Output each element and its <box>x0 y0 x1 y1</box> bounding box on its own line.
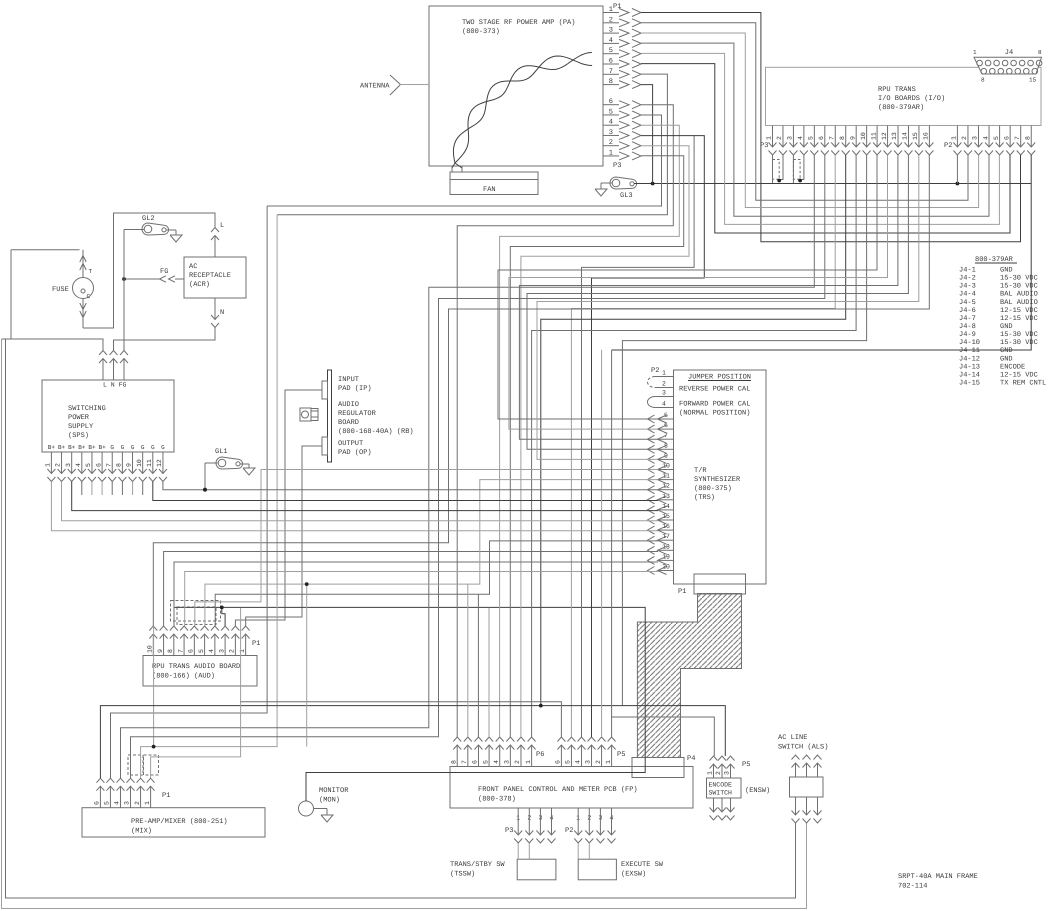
svg-text:P5: P5 <box>617 751 625 759</box>
svg-text:10: 10 <box>136 459 143 467</box>
wire AUD-P1-8 to TRS-19 <box>174 562 658 626</box>
svg-text:6: 6 <box>555 760 562 764</box>
svg-text:8: 8 <box>1024 136 1031 140</box>
svg-text:5: 5 <box>85 463 92 467</box>
svg-text:J4-2: J4-2 <box>959 275 976 283</box>
wire SPS-9 stub <box>132 482 134 496</box>
svg-text:RECEPTACLE: RECEPTACLE <box>189 272 231 280</box>
TRS connector P2 pins 1-4 with jumpers <box>648 367 674 408</box>
GL3 ground bus wire <box>634 182 1031 186</box>
wire SPS-7 stub <box>111 482 113 496</box>
svg-text:1: 1 <box>766 136 773 140</box>
wire PA-P3-5 to MIX bus x267 <box>267 115 661 206</box>
svg-text:SWITCH (ALS): SWITCH (ALS) <box>778 743 828 752</box>
svg-text:(800-375): (800-375) <box>694 484 732 493</box>
svg-text:J4-14: J4-14 <box>959 371 980 379</box>
connector P3 of PA, pins 6-1 <box>603 98 641 170</box>
svg-text:7: 7 <box>105 463 112 467</box>
svg-text:6: 6 <box>1003 136 1010 140</box>
wire PA-P1-2 to I/O-P2-2 <box>641 23 968 201</box>
svg-text:J4-1: J4-1 <box>959 267 976 275</box>
svg-text:3: 3 <box>662 390 666 397</box>
svg-text:FAN: FAN <box>483 186 496 194</box>
wire FP-P5-6 to ENSW-1 <box>611 350 613 737</box>
wire SPS-1 to TRS-16 <box>51 482 658 531</box>
wire I/O-P3-10 <box>622 155 866 706</box>
wire MIX-P1-1 feed <box>151 608 241 778</box>
svg-text:REVERSE POWER CAL: REVERSE POWER CAL <box>679 386 750 394</box>
svg-text:11: 11 <box>870 132 877 140</box>
TRS connector P2 pins 5-20 <box>648 412 674 575</box>
wire bus x277 to MIX-P1-2 <box>141 215 278 778</box>
svg-text:REGULATOR: REGULATOR <box>338 410 377 418</box>
wire fuse top to node <box>11 249 80 251</box>
SPS output pins 1-12 <box>45 444 167 482</box>
T/R synthesizer TRS box (800-375) <box>674 370 767 584</box>
wire AUD-P1-4 to TRS-17 <box>215 541 658 626</box>
RPU trans I/O boards box (800-379AR) <box>766 67 1042 125</box>
wire bus x267 to MIX-P1-5 <box>111 206 268 778</box>
trans/stby switch TSSW <box>450 844 556 880</box>
svg-text:5: 5 <box>198 649 205 653</box>
svg-text:J4-6: J4-6 <box>959 307 976 315</box>
svg-text:15-30 VDC: 15-30 VDC <box>1000 331 1038 339</box>
svg-text:2: 2 <box>134 801 141 805</box>
svg-text:4: 4 <box>662 401 666 408</box>
svg-text:(800-166) (AUD): (800-166) (AUD) <box>152 672 215 681</box>
svg-text:3: 3 <box>65 463 72 467</box>
wire ENSW-1 branch <box>612 717 715 756</box>
front panel control and meter PCB box (800-378) <box>450 767 693 809</box>
svg-text:5: 5 <box>565 760 572 764</box>
wire PA-P3-3a to FP-P5-3 <box>582 136 695 737</box>
ACR pin L <box>211 222 224 257</box>
svg-text:B+: B+ <box>68 444 76 451</box>
svg-text:4: 4 <box>208 649 215 653</box>
svg-text:J4-7: J4-7 <box>959 315 976 323</box>
svg-text:P1: P1 <box>252 640 260 648</box>
wire AC L loop via GL2 box <box>83 213 215 328</box>
wire SPS-6 stub <box>101 482 103 496</box>
wire FP-P6-6 drop <box>477 594 479 737</box>
MIX connector P1 pins 6-1 <box>94 778 171 808</box>
wire PA-P1-8 to GL3 <box>641 85 653 184</box>
wire I/O-P3-5 to MIX-P1-4 <box>121 155 815 778</box>
wire y701.8 run <box>241 702 562 737</box>
wire FP-P6-7 drop <box>467 584 469 737</box>
svg-text:GL3: GL3 <box>620 192 633 200</box>
svg-text:GL2: GL2 <box>142 215 155 223</box>
svg-text:14: 14 <box>902 132 909 140</box>
svg-text:5: 5 <box>993 136 1000 140</box>
twisted pair wire inside PA <box>452 53 592 169</box>
svg-text:B+: B+ <box>98 444 106 451</box>
svg-text:2: 2 <box>776 136 783 140</box>
svg-text:6: 6 <box>95 463 102 467</box>
svg-text:2: 2 <box>514 760 521 764</box>
wire FP-P5-5 drop <box>601 350 603 737</box>
wire GL2 to FG node <box>124 230 144 280</box>
wire PA-P3-4 to FP-P6-4 <box>500 125 680 737</box>
wire MIX-P1-2 bus drop <box>306 584 308 747</box>
svg-text:PRE-AMP/MIXER (800-251): PRE-AMP/MIXER (800-251) <box>131 817 228 826</box>
svg-text:6: 6 <box>818 136 825 140</box>
svg-text:FORWARD POWER CAL: FORWARD POWER CAL <box>679 401 750 409</box>
jumper plugs on I/O P3 pins 1-4 <box>773 155 804 184</box>
wire AUD-P1-7 to TRS-20 <box>185 572 658 627</box>
FP connector P6 pins 8-1 <box>450 737 544 767</box>
svg-text:G: G <box>161 444 165 451</box>
svg-text:PAD (IP): PAD (IP) <box>338 384 372 393</box>
junction dots <box>152 488 543 749</box>
svg-text:1: 1 <box>951 136 958 140</box>
svg-text:3: 3 <box>787 136 794 140</box>
svg-text:7: 7 <box>177 649 184 653</box>
wire PA-P1-1 to I/O-P2-7 <box>641 13 1021 242</box>
connector J4 DB-15 on I/O board <box>973 49 1042 84</box>
wire fuse branch down <box>10 250 12 339</box>
svg-text:(800-378): (800-378) <box>478 795 516 804</box>
svg-text:TWO STAGE RF POWER AMP (PA): TWO STAGE RF POWER AMP (PA) <box>462 18 575 27</box>
svg-text:AUDIO: AUDIO <box>338 401 359 409</box>
svg-text:(MON): (MON) <box>319 796 340 805</box>
svg-text:L: L <box>220 222 224 230</box>
wire FG down to SPS <box>123 279 125 351</box>
wire I/O-P3-12 to TRS-6 <box>509 155 888 429</box>
svg-text:1: 1 <box>662 370 666 377</box>
fuse F1 <box>52 250 94 328</box>
svg-text:P2: P2 <box>651 367 659 375</box>
wire I/O-P3-8 to ENSW bus <box>541 155 846 706</box>
svg-text:FUSE: FUSE <box>52 286 69 294</box>
svg-text:5: 5 <box>104 801 111 805</box>
wire SPS-2 to TRS-15 <box>62 482 659 521</box>
svg-text:J4: J4 <box>1005 49 1013 57</box>
wire PA-P1-7 to MIX bus x277 <box>277 74 667 215</box>
svg-text:SUPPLY: SUPPLY <box>68 423 94 431</box>
svg-text:OUTPUT: OUTPUT <box>338 440 363 448</box>
svg-text:BAL AUDIO: BAL AUDIO <box>1000 299 1038 307</box>
svg-text:16: 16 <box>923 132 930 140</box>
audio regulator board RB (800-168-40A) <box>300 370 414 462</box>
svg-text:ANTENNA: ANTENNA <box>360 83 390 91</box>
wire SPS-12 to TRS-12 <box>163 482 658 490</box>
svg-text:4: 4 <box>114 801 121 805</box>
svg-text:B+: B+ <box>58 444 66 451</box>
wire ALS return up left edge <box>6 339 796 898</box>
svg-text:P3: P3 <box>613 162 621 170</box>
ground lug GL3 <box>595 177 637 200</box>
svg-text:3: 3 <box>724 771 731 775</box>
svg-text:2: 2 <box>595 760 602 764</box>
svg-text:G: G <box>110 444 114 451</box>
svg-text:4: 4 <box>493 760 500 764</box>
svg-text:4: 4 <box>75 463 82 467</box>
svg-text:ENCODE: ENCODE <box>1000 363 1025 371</box>
wire PA-P1-3 to I/O-P2-3 <box>641 33 979 208</box>
svg-text:2: 2 <box>961 136 968 140</box>
svg-text:(SPS): (SPS) <box>68 431 89 440</box>
connector P3 of I/O board, pins 1-16 <box>760 126 933 156</box>
svg-text:FG: FG <box>160 268 168 276</box>
svg-text:PAD (OP): PAD (OP) <box>338 448 372 457</box>
svg-text:(EXSW): (EXSW) <box>621 870 646 879</box>
svg-text:2: 2 <box>229 649 236 653</box>
svg-text:15: 15 <box>912 132 919 140</box>
wire SPS-4 stub <box>81 482 83 496</box>
encode switch ENSW box <box>707 778 771 798</box>
wire I/O-P3-9 to FP-P6-1 <box>532 155 857 737</box>
svg-text:12: 12 <box>881 132 888 140</box>
FAN box under PA <box>450 166 538 195</box>
wire PA-P3-1 to FP-P6-3 <box>510 156 683 737</box>
svg-text:SWITCHING: SWITCHING <box>68 405 106 413</box>
wire I/O-P3-11 to TRS-5 <box>498 155 877 419</box>
wire SPS-3 to TRS-14 <box>72 482 658 511</box>
FP connector P5 pins 6-1 <box>555 737 626 767</box>
svg-text:INPUT: INPUT <box>338 376 359 384</box>
svg-text:9: 9 <box>126 463 133 467</box>
800-379AR pin function table <box>959 256 1046 387</box>
svg-text:J4-4: J4-4 <box>959 291 976 299</box>
svg-text:TX REM CNTL: TX REM CNTL <box>1000 379 1046 387</box>
svg-text:J4-9: J4-9 <box>959 331 976 339</box>
svg-text:3: 3 <box>585 760 592 764</box>
svg-text:B+: B+ <box>78 444 86 451</box>
svg-text:P6: P6 <box>536 751 544 759</box>
wire MIX-P1-6 to ENSW-2 bus <box>100 706 725 778</box>
svg-text:P5: P5 <box>742 761 750 769</box>
svg-text:G: G <box>131 444 135 451</box>
svg-text:TRANS/STBY SW: TRANS/STBY SW <box>450 860 505 869</box>
svg-text:MONITOR: MONITOR <box>319 787 349 795</box>
svg-text:J4-5: J4-5 <box>959 299 976 307</box>
AC receptacle ACR box <box>184 257 246 298</box>
drawing title <box>898 873 978 891</box>
svg-text:9: 9 <box>157 649 164 653</box>
svg-text:7: 7 <box>828 136 835 140</box>
ACR pin N <box>211 298 224 328</box>
svg-text:3: 3 <box>972 136 979 140</box>
wire PA-P1-5 to I/O-P2-5 <box>641 53 999 224</box>
svg-text:12: 12 <box>156 459 163 467</box>
svg-text:SWITCH: SWITCH <box>709 790 733 797</box>
svg-text:(TRS): (TRS) <box>694 493 715 502</box>
wire I/O-P3-13 to TRS-7 <box>519 155 898 439</box>
svg-text:(ENSW): (ENSW) <box>745 786 770 795</box>
svg-text:6: 6 <box>94 801 101 805</box>
wire SPS-11 to TRS-13 <box>153 482 658 501</box>
ground lug GL1 <box>203 448 255 492</box>
svg-text:6: 6 <box>188 649 195 653</box>
svg-text:J4-15: J4-15 <box>959 379 980 387</box>
ENSW bottom pins <box>710 798 735 820</box>
ALS top pins <box>792 755 822 777</box>
svg-text:FRONT PANEL CONTROL AND METER: FRONT PANEL CONTROL AND METER PCB (FP) <box>478 785 638 794</box>
svg-text:2: 2 <box>715 771 722 775</box>
svg-text:10: 10 <box>860 132 867 140</box>
svg-text:1: 1 <box>45 463 52 467</box>
hatched ribbon cable TRS-P1 to FP-P4 <box>637 594 741 758</box>
svg-text:13: 13 <box>891 132 898 140</box>
jumper plugs above AUD pins <box>171 601 221 625</box>
svg-text:12-15 VDC: 12-15 VDC <box>1000 307 1038 315</box>
svg-text:2: 2 <box>662 381 666 388</box>
wire RB output pad <box>246 446 322 626</box>
svg-text:P3: P3 <box>505 827 513 835</box>
antenna input <box>360 75 429 95</box>
svg-text:3: 3 <box>504 760 511 764</box>
FP connector P4 box <box>632 755 695 778</box>
svg-text:P1: P1 <box>613 3 621 11</box>
wire I/O-P3-6 to MIX-P1-3 <box>131 155 825 778</box>
SPS input pins L N FG <box>99 351 128 381</box>
svg-text:3: 3 <box>124 801 131 805</box>
svg-text:(800-379AR): (800-379AR) <box>878 103 924 112</box>
wire AUD-P1-3 jog to monitor bus <box>222 607 225 626</box>
svg-text:SRPT-40A MAIN FRAME: SRPT-40A MAIN FRAME <box>898 873 978 881</box>
wire SPS-5 stub <box>91 482 93 496</box>
svg-text:ENCODE: ENCODE <box>709 782 733 789</box>
svg-text:1: 1 <box>525 760 532 764</box>
ACR pin FG <box>122 268 184 282</box>
svg-text:8: 8 <box>167 649 174 653</box>
svg-text:4: 4 <box>575 760 582 764</box>
svg-text:C: C <box>87 293 91 300</box>
wire I/O-P2-1 to GL3 bus <box>956 155 958 184</box>
encode switch connector P5 pins <box>707 756 751 778</box>
svg-text:P1: P1 <box>678 588 686 596</box>
wire I/O-P3-14 to TRS-8 <box>527 155 908 449</box>
svg-text:8: 8 <box>116 463 123 467</box>
wire PA-P3-3 to FP-P5-4 <box>592 136 705 737</box>
svg-text:G: G <box>151 444 155 451</box>
svg-text:7: 7 <box>1014 136 1021 140</box>
svg-text:G: G <box>141 444 145 451</box>
wire AUD-P1-5 to TRS-11 <box>205 480 658 626</box>
svg-text:6: 6 <box>472 760 479 764</box>
svg-text:GL1: GL1 <box>215 448 228 456</box>
pre-amp/mixer MIX box (800-251) <box>82 808 265 837</box>
svg-text:(MIX): (MIX) <box>131 827 152 836</box>
svg-text:J4-3: J4-3 <box>959 283 976 291</box>
svg-text:1: 1 <box>239 649 246 653</box>
FP connector P2 pins 1-4 <box>565 808 616 843</box>
svg-text:4: 4 <box>982 136 989 140</box>
svg-text:(ACR): (ACR) <box>189 280 210 289</box>
svg-text:T: T <box>89 268 93 275</box>
wire FP-P6-5 drop <box>488 608 490 737</box>
wire PA-P3-2 to FP-P6-2 <box>521 146 689 737</box>
wire PA-P3-6 to FP-P6-8 <box>457 105 673 737</box>
svg-text:8: 8 <box>981 77 985 84</box>
svg-text:P2: P2 <box>565 827 573 835</box>
svg-text:15: 15 <box>1029 77 1037 84</box>
TRS bottom connector P1 <box>678 574 746 596</box>
wire SPS-10 stub <box>142 482 144 496</box>
svg-text:GND: GND <box>1000 347 1013 355</box>
svg-text:3: 3 <box>218 649 225 653</box>
svg-text:(NORMAL POSITION): (NORMAL POSITION) <box>679 409 750 418</box>
svg-text:RPU TRANS: RPU TRANS <box>878 86 916 94</box>
svg-text:1: 1 <box>973 49 977 56</box>
wire RB input pad <box>235 390 322 626</box>
svg-text:EXECUTE SW: EXECUTE SW <box>621 861 664 869</box>
svg-text:12-15 VDC: 12-15 VDC <box>1000 371 1038 379</box>
ground lug GL2 <box>142 215 182 242</box>
svg-text:J4-13: J4-13 <box>959 363 980 371</box>
ALS bottom pins <box>792 797 822 823</box>
svg-text:J4-11: J4-11 <box>959 347 980 355</box>
FP connector P3 pins 1-4 <box>505 808 556 843</box>
switching power supply SPS box <box>42 380 174 452</box>
wire PA-P1-4 to I/O-P2-4 <box>641 43 989 216</box>
svg-text:RPU TRANS AUDIO BOARD: RPU TRANS AUDIO BOARD <box>152 663 240 671</box>
svg-text:12-15 VDC: 12-15 VDC <box>1000 315 1038 323</box>
svg-text:BAL AUDIO: BAL AUDIO <box>1000 291 1038 299</box>
svg-text:T/R: T/R <box>694 466 707 475</box>
svg-text:L N FG: L N FG <box>103 382 127 389</box>
wire I/O-P2-8 <box>612 155 1032 350</box>
monitor speaker MON <box>299 787 350 822</box>
svg-text:(800-168-40A) (RB): (800-168-40A) (RB) <box>338 427 414 436</box>
svg-text:J4-12: J4-12 <box>959 355 980 363</box>
svg-text:P4: P4 <box>687 755 695 763</box>
svg-text:9: 9 <box>849 136 856 140</box>
wire AC hot bottom run <box>2 339 807 909</box>
svg-text:J4-8: J4-8 <box>959 323 976 331</box>
svg-text:7: 7 <box>461 760 468 764</box>
svg-text:I/O BOARDS (I/O): I/O BOARDS (I/O) <box>878 94 945 103</box>
svg-text:GND: GND <box>1000 323 1013 331</box>
svg-text:702-114: 702-114 <box>898 883 927 891</box>
svg-text:AC LINE: AC LINE <box>778 734 807 742</box>
connector P2 of I/O board, pins 1-8 <box>944 126 1035 156</box>
svg-text:5: 5 <box>482 760 489 764</box>
svg-text:(TSSW): (TSSW) <box>450 870 475 879</box>
AUD connector P1 pins 10-1 <box>147 626 261 656</box>
svg-text:SYNTHESIZER: SYNTHESIZER <box>694 476 741 484</box>
wire AUD-P1-6 to TRS-10 <box>195 470 658 627</box>
svg-text:8: 8 <box>1038 49 1042 56</box>
svg-text:5: 5 <box>808 136 815 140</box>
svg-text:P2: P2 <box>944 142 952 150</box>
svg-text:1: 1 <box>144 801 151 805</box>
svg-text:AC: AC <box>189 263 197 271</box>
AC line switch ALS box <box>778 734 828 797</box>
svg-text:8: 8 <box>839 136 846 140</box>
svg-text:POWER: POWER <box>68 414 90 422</box>
svg-text:GND: GND <box>1000 355 1013 363</box>
svg-text:15-30 VDC: 15-30 VDC <box>1000 283 1038 291</box>
wire I/O-P3-16 to AUD-P1-10 <box>153 155 929 626</box>
svg-text:B+: B+ <box>48 444 56 451</box>
svg-text:N: N <box>220 309 224 317</box>
svg-text:BOARD: BOARD <box>338 419 359 427</box>
svg-text:B+: B+ <box>88 444 96 451</box>
svg-text:(800-373): (800-373) <box>462 27 500 36</box>
wire I/O-P3-15 to TRS-9 <box>537 155 919 459</box>
jumper plugs above MIX pins <box>128 755 159 775</box>
svg-text:4: 4 <box>797 136 804 140</box>
wire monitor feed <box>174 607 645 801</box>
svg-text:G: G <box>121 444 125 451</box>
wire SPS-8 stub <box>121 482 123 496</box>
connector P1 of PA, pins 1-8 <box>603 3 641 89</box>
svg-text:8: 8 <box>450 760 457 764</box>
wire AUD pin10 drop to MIX bus <box>153 626 155 747</box>
svg-text:1: 1 <box>605 760 612 764</box>
